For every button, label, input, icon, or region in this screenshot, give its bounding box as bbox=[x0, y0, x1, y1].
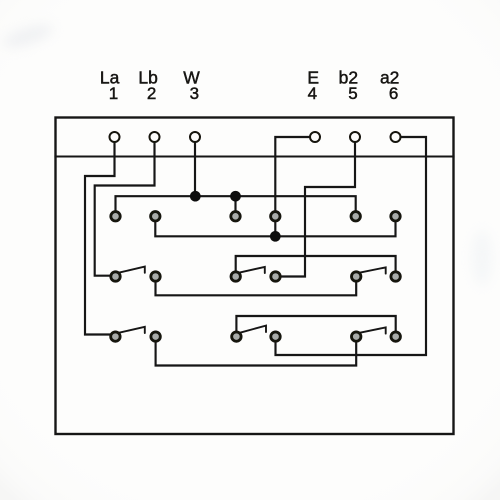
switch S6 right contact bbox=[391, 332, 400, 341]
outer box bbox=[56, 118, 454, 435]
terminal 3 W bbox=[190, 132, 200, 142]
terminal strip line bbox=[56, 155, 454, 157]
switch S4 right contact bbox=[151, 332, 160, 341]
wire contact-row upper bus: C1 up, across to C5 bbox=[116, 196, 356, 216]
terminal 4 E bbox=[310, 132, 320, 142]
wire Lb: terminal 2 down, left, down to upper-left switch contact bbox=[95, 141, 155, 276]
wire link upper switch row: S1R down, across, up to S3L bbox=[156, 277, 357, 296]
terminal 6 a2 bbox=[391, 132, 401, 142]
switch arm S1 (upper-left) bbox=[119, 267, 145, 273]
svg-text:5: 5 bbox=[348, 84, 357, 103]
switch arm S5 (lower-middle) bbox=[240, 326, 266, 333]
contact C4 bbox=[271, 212, 280, 221]
switch arms bbox=[119, 267, 386, 334]
svg-text:4: 4 bbox=[308, 84, 317, 103]
switch arm S6 (lower-right) bbox=[359, 327, 385, 333]
svg-text:3: 3 bbox=[190, 84, 199, 103]
switch S6 left contact bbox=[352, 332, 361, 341]
terminal 5 b2 bbox=[350, 132, 360, 142]
switch S2 left contact bbox=[231, 272, 240, 281]
contact C6 bbox=[391, 212, 400, 221]
switch arm S3 (upper-right) bbox=[359, 267, 385, 273]
wire W: terminal 3 down to junction on contact-row bus bbox=[194, 141, 196, 196]
contact C2 bbox=[151, 212, 160, 221]
faint smudge top-left bbox=[1, 20, 55, 51]
switch S1 left contact bbox=[111, 272, 120, 281]
wire E: terminal 4 left, down through contact C4 to junction on lower bus bbox=[275, 137, 314, 236]
wire stem from upper bus junction down to contact C3 bbox=[234, 196, 236, 216]
switch S5 left contact bbox=[232, 332, 241, 341]
wire link upper switch row: S2L up, across, down to S3R bbox=[236, 256, 396, 277]
contact C1 bbox=[111, 212, 120, 221]
terminal 1 La bbox=[110, 132, 120, 142]
wire La: terminal 1 down, left, down to lower-left switch contact bbox=[85, 141, 115, 335]
faint smudge right of box bbox=[472, 230, 492, 286]
wire a2: terminal 6 right, down, left, up to lower-middle switch right contact bbox=[276, 137, 427, 355]
terminal 2 Lb bbox=[150, 132, 160, 142]
junction dot at E / lower bus bbox=[270, 231, 281, 242]
wire b2: terminal 5 down, left, down to upper-middle switch right contact bbox=[277, 141, 355, 277]
switch arm S2 (upper-middle) bbox=[239, 267, 265, 273]
junction dot at W / upper bus bbox=[190, 191, 201, 202]
switch S1 right contact bbox=[151, 272, 160, 281]
contact C3 bbox=[231, 212, 240, 221]
switch S3 left contact bbox=[352, 272, 361, 281]
junction dot at C3 stem / upper bus bbox=[230, 191, 241, 202]
switch S2 right contact bbox=[271, 272, 280, 281]
switch S4 left contact bbox=[111, 332, 120, 341]
wire contact-row lower bus: C2 down, across to C6 bbox=[155, 216, 395, 236]
switch S5 right contact bbox=[271, 332, 280, 341]
wire link lower switch row: S4R down, across, up to S6L bbox=[156, 337, 357, 366]
contact C5 bbox=[351, 212, 360, 221]
svg-text:2: 2 bbox=[147, 84, 156, 103]
svg-text:1: 1 bbox=[109, 84, 118, 103]
svg-text:6: 6 bbox=[389, 84, 398, 103]
switch arm S4 (lower-left) bbox=[119, 327, 145, 333]
switch S3 right contact bbox=[391, 272, 400, 281]
wire link lower switch row: S5L up, across, down to S6R bbox=[236, 316, 395, 337]
